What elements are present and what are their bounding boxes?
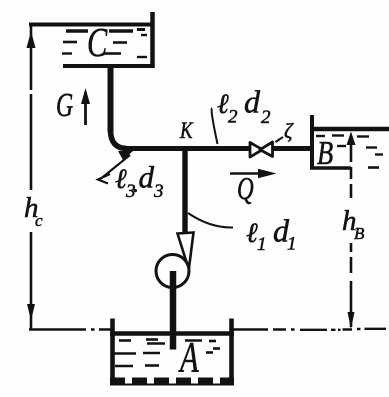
node: h_B top arrowhead (347, 132, 356, 146)
datum line (dash-dot) left of tank A (29, 328, 112, 331)
svg-text:1: 1 (257, 234, 267, 255)
svg-text:A: A (178, 335, 199, 382)
flow arrow G (upward) (84, 92, 87, 125)
tank B water dashes (316, 136, 383, 155)
valve ζ (bowtie symbol) (250, 143, 263, 158)
svg-text:Q: Q (237, 171, 254, 207)
node: h_B dimension line (350, 140, 353, 327)
svg-text:B: B (354, 224, 365, 243)
label l3 d3 leader with arrowhead (118, 151, 133, 160)
datum line (dash-dot) right of tank A (234, 329, 387, 330)
tank C water dashes (62, 30, 147, 58)
tank B left wall (310, 115, 314, 169)
label l1 d1 leader line (188, 213, 233, 228)
wire: horizontal pipe from elbow to valve (125, 146, 250, 151)
svg-text:2: 2 (228, 107, 238, 128)
wire: pipe from valve into tank B (272, 146, 313, 151)
tank A left wall (110, 319, 115, 385)
tank A water-surface line (110, 331, 234, 336)
pipe l3: vertical drop from tank C with elbow to node K (108, 64, 114, 132)
label l2 d2 leader line (212, 108, 218, 144)
tank A water dashes (114, 340, 220, 367)
svg-text:ζ: ζ (284, 119, 294, 143)
svg-text:d: d (139, 160, 155, 195)
tank A right wall (229, 319, 234, 384)
node: h_C top arrowhead (27, 31, 36, 48)
svg-text:C: C (87, 20, 108, 65)
tank A bottom (heavy dashed) (110, 378, 234, 386)
svg-text:2: 2 (261, 107, 271, 128)
tank B bottom (310, 166, 351, 169)
node: h_B bottom arrowhead (348, 312, 355, 329)
pipe l1: vertical pipe from node K down to pump (182, 148, 187, 232)
flow arrow Q (230, 172, 270, 175)
node: h_C dimension line (30, 26, 33, 329)
svg-text:3: 3 (153, 181, 164, 202)
tank C right wall (150, 12, 155, 68)
pump (circle) (156, 255, 189, 288)
svg-text:K: K (179, 117, 193, 143)
node: h_C bottom arrowhead (27, 304, 35, 321)
valve leader tick (276, 137, 284, 142)
tank B water-surface line (313, 127, 389, 131)
tank C bottom (63, 64, 154, 68)
svg-text:1: 1 (287, 234, 297, 255)
svg-text:d: d (244, 84, 261, 120)
svg-text:c: c (35, 211, 43, 230)
svg-text:B: B (317, 134, 333, 172)
pipe below pump into tank A (170, 271, 177, 350)
wire: tank C water-surface / top connector line (29, 23, 154, 27)
svg-text:G: G (56, 87, 73, 124)
pump suction arrow (hollow, pointing down into pump) (178, 233, 194, 270)
